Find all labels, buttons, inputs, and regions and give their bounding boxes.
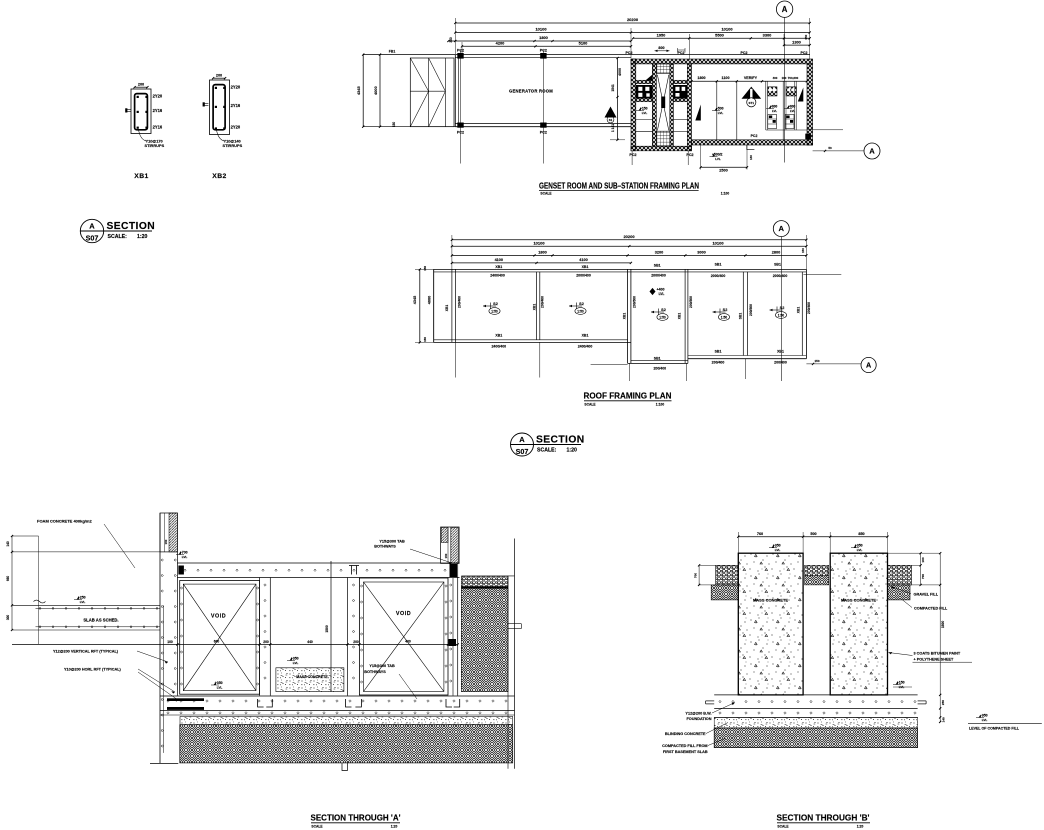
svg-text:PC2: PC2 (751, 134, 758, 138)
svg-text:PC2: PC2 (457, 131, 464, 135)
rft labels (53, 650, 178, 702)
genset plan title (539, 181, 729, 195)
svg-text:SLAB AS SCHED.: SLAB AS SCHED. (83, 617, 118, 622)
svg-text:10100: 10100 (712, 240, 724, 245)
svg-text:4000: 4000 (427, 296, 431, 304)
substation left vertical dims (610, 57, 625, 141)
svg-text:XB1: XB1 (623, 313, 627, 320)
genset plan dimension row 10100 (454, 27, 811, 58)
genset canopy louver panel (410, 58, 454, 127)
substation stair right wall (687, 64, 691, 151)
svg-text:5100: 5100 (579, 41, 588, 46)
svg-text:MASS CONCRETE: MASS CONCRETE (753, 597, 788, 602)
svg-text:760: 760 (757, 532, 763, 536)
svg-text:+250: +250 (78, 595, 86, 599)
roof interior beam labels bottom (491, 334, 786, 371)
svg-text:+350: +350 (291, 656, 299, 660)
section B ground fill (714, 728, 917, 748)
roof section bubble top (780, 237, 782, 381)
mid dim line (12, 639, 459, 645)
svg-text:VERIFY: VERIFY (744, 76, 758, 80)
svg-text:600: 600 (214, 639, 220, 643)
column PC2 grid line a (457, 48, 464, 163)
roof bay3 bottom (591, 361, 688, 365)
slab as sched (36, 607, 161, 628)
svg-text:A: A (782, 5, 788, 14)
svg-text:MASS CONCRETE: MASS CONCRETE (841, 597, 876, 602)
svg-text:STIRRUPS: STIRRUPS (145, 143, 165, 148)
svg-text:1:100: 1:100 (656, 402, 665, 406)
svg-text:A: A (869, 147, 875, 156)
section B top dims 760/500/850 (737, 532, 888, 553)
svg-text:200: 200 (216, 74, 222, 78)
svg-text:SB1: SB1 (654, 263, 661, 267)
svg-text:150: 150 (392, 122, 396, 128)
svg-text:XB1: XB1 (678, 313, 682, 320)
svg-text:2000/400: 2000/400 (576, 274, 591, 278)
roof left dim 4345 (413, 265, 434, 343)
svg-text:VOID: VOID (211, 613, 226, 619)
svg-text:+350: +350 (215, 681, 223, 685)
level marker +150 (893, 680, 912, 689)
genset canopy outline (363, 55, 455, 127)
shaft level marker +350 (290, 658, 292, 661)
blinding band (180, 717, 513, 725)
ground fill band (180, 725, 513, 771)
roof divider 4 (743, 272, 747, 356)
svg-text:LVL: LVL (715, 157, 721, 161)
svg-text:PC2: PC2 (678, 51, 685, 55)
svg-text:150: 150 (814, 359, 819, 363)
svg-text:GRAVEL FILL: GRAVEL FILL (914, 592, 939, 596)
substation right wall (807, 64, 813, 145)
svg-text:200/400: 200/400 (457, 296, 461, 308)
svg-text:LVL: LVL (790, 109, 795, 113)
svg-text:500: 500 (810, 532, 816, 536)
svg-text:10100: 10100 (533, 240, 545, 245)
svg-text:150: 150 (423, 265, 427, 270)
svg-text:+350: +350 (773, 544, 781, 548)
svg-text:3300: 3300 (763, 32, 772, 37)
genset door dim 800 (655, 46, 686, 53)
svg-text:COMPACTED FILL: COMPACTED FILL (914, 606, 948, 610)
svg-text:–950: –950 (980, 713, 988, 717)
section marker A/S07 upper (80, 219, 155, 242)
roof slope marker bay5 (770, 309, 783, 311)
svg-text:LVL: LVL (217, 685, 223, 689)
svg-text:1800: 1800 (539, 35, 548, 40)
roof bays45 bottom (688, 356, 807, 359)
main room PC2 label (751, 134, 811, 140)
svg-text:PC2: PC2 (629, 153, 636, 157)
svg-text:1:20: 1:20 (137, 234, 147, 240)
substation stair inner wall 2 (670, 64, 674, 146)
svg-text:2Y20: 2Y20 (231, 84, 241, 89)
svg-text:BOTHWAYS: BOTHWAYS (374, 544, 396, 548)
roof section bubble right (806, 359, 861, 365)
svg-text:LVL: LVL (80, 600, 86, 604)
wall between void1 and shaft (260, 578, 271, 696)
svg-text:4345: 4345 (356, 86, 361, 95)
svg-text:+ POLYTHENE SHEET: + POLYTHENE SHEET (914, 657, 955, 661)
roof divider 1 (537, 272, 540, 340)
svg-text:140: 140 (749, 155, 753, 160)
svg-text:2Y16: 2Y16 (231, 103, 241, 108)
stair right cell fittings (673, 80, 687, 131)
svg-text:XB1: XB1 (495, 334, 502, 338)
svg-text:FOUNDATION: FOUNDATION (686, 717, 711, 721)
section bubble A top (776, 1, 792, 17)
svg-text:S2: S2 (723, 308, 728, 312)
substation left outside level flag (605, 107, 617, 123)
main room stair-up symbol (742, 87, 762, 107)
svg-text:1800: 1800 (697, 76, 705, 80)
svg-text:150: 150 (164, 539, 168, 544)
svg-text:Y10@200 HORL RFT (TYPICAL): Y10@200 HORL RFT (TYPICAL) (64, 668, 122, 672)
svg-text:Y12@200 B.W.: Y12@200 B.W. (685, 711, 711, 715)
section B foundation slab (706, 695, 927, 709)
svg-text:Y12@200 VERTICAL RFT (TYPICAL): Y12@200 VERTICAL RFT (TYPICAL) (53, 650, 119, 654)
svg-text:LVL: LVL (642, 111, 648, 115)
svg-text:3 COATS BITUMEN PAINT: 3 COATS BITUMEN PAINT (914, 651, 961, 655)
svg-text:440: 440 (307, 640, 313, 644)
svg-text:2000/400: 2000/400 (711, 274, 726, 278)
svg-text:1950: 1950 (657, 32, 666, 37)
section A right stub wall (441, 527, 460, 563)
svg-text:SCALE:: SCALE: (108, 234, 128, 240)
svg-text:200/400: 200/400 (541, 296, 545, 308)
svg-text:XB1: XB1 (134, 173, 148, 180)
roof rotated edge labels (445, 296, 811, 319)
svg-text:4000: 4000 (618, 68, 622, 76)
svg-text:SECTION THROUGH 'A': SECTION THROUGH 'A' (311, 813, 401, 822)
svg-text:250: 250 (941, 700, 945, 705)
svg-text:140: 140 (6, 541, 10, 547)
roof dim row 10100 (451, 240, 808, 247)
svg-text:2500: 2500 (719, 169, 727, 173)
svg-text:GENSET ROOM AND SUB–STATION FR: GENSET ROOM AND SUB–STATION FRAMING PLAN (539, 181, 699, 190)
substation top wall (631, 59, 813, 64)
genset plan dimension row 20200 (454, 17, 811, 60)
below plan dim 2500 (700, 145, 753, 173)
svg-text:ST1: ST1 (749, 101, 755, 105)
compacted fill label (902, 600, 948, 611)
svg-text:PC2: PC2 (626, 51, 633, 55)
roof bay3 left wall (628, 269, 631, 363)
roof slab band (177, 563, 459, 578)
stair door sill (747, 145, 755, 150)
genset canopy dim 4345 (356, 54, 365, 128)
svg-text:1:50: 1:50 (721, 315, 728, 319)
svg-text:1:50: 1:50 (491, 309, 498, 313)
svg-text:200: 200 (138, 83, 144, 87)
mass concrete block 1 (738, 553, 803, 695)
main room partition 1 (716, 81, 718, 140)
svg-text:1:100: 1:100 (721, 191, 730, 195)
mass concrete block 2 (830, 553, 887, 695)
roof slope marker bay3 (651, 311, 664, 313)
svg-text:200/500: 200/500 (749, 304, 753, 316)
svg-text:SB1: SB1 (715, 349, 722, 353)
svg-text:SB1: SB1 (654, 357, 661, 361)
roof wall line left (452, 269, 456, 342)
genset plan dimension row 4200/5100 (461, 41, 632, 56)
svg-text:SCALE: SCALE (584, 402, 596, 406)
svg-text:S2: S2 (780, 306, 785, 310)
left foundation labels (662, 703, 735, 755)
roof slope marker bay4 (713, 311, 726, 313)
void box 1 (180, 581, 260, 695)
svg-text:140: 140 (941, 717, 945, 722)
substation main bottom wall (692, 140, 813, 145)
svg-text:SB1: SB1 (715, 262, 722, 266)
roof left dim 4000 (427, 269, 433, 342)
roof slope marker bay2 (569, 305, 582, 307)
svg-text:1500: 1500 (325, 625, 329, 633)
main room interior dims 1800/1100/VERIFY (690, 76, 808, 83)
column detail XB1 (125, 83, 164, 180)
svg-text:200/400: 200/400 (712, 361, 725, 365)
roof slope marker bay1 (483, 305, 496, 307)
level marker -950 (968, 713, 1042, 730)
svg-text:XB1: XB1 (495, 265, 502, 269)
left wing dim 700 (693, 564, 715, 586)
svg-text:1:20: 1:20 (857, 824, 864, 828)
main room partition right (766, 81, 807, 130)
svg-text:PC2: PC2 (540, 131, 547, 135)
svg-text:300: 300 (449, 37, 453, 43)
gap between blocks fill (805, 565, 829, 585)
genset plan dimension row 300/1800 (447, 35, 632, 42)
svg-text:PC2: PC2 (540, 48, 547, 52)
svg-text:LEVEL OF COMPACTED FILL: LEVEL OF COMPACTED FILL (969, 727, 1020, 731)
shaft vertical dim 1500 (325, 561, 331, 692)
below stair PC2 stubs (629, 151, 693, 165)
svg-text:200/500: 200/500 (689, 296, 693, 308)
svg-text:LVL: LVL (182, 555, 188, 559)
svg-text:1100: 1100 (722, 76, 730, 80)
Y15 tab label top (374, 539, 452, 565)
section A left dims 140/660/300 (6, 535, 160, 631)
svg-text:LVL: LVL (772, 109, 777, 113)
stair upper treads (656, 64, 669, 74)
svg-text:PC2: PC2 (457, 48, 464, 52)
main room partition 2 (736, 81, 738, 140)
main room door wedge left (695, 105, 701, 121)
svg-text:+150: +150 (897, 680, 905, 684)
svg-text:10100: 10100 (721, 27, 733, 32)
main room equipment cell 1 (766, 81, 778, 130)
right gravel wing (888, 565, 912, 600)
svg-text:2Y16: 2Y16 (153, 125, 163, 130)
svg-text:A: A (866, 361, 872, 370)
section bubble A right (813, 146, 864, 152)
svg-text:LVL: LVL (659, 292, 665, 296)
roof dim row 20200 (451, 234, 808, 270)
substation stair bottom wall (631, 146, 692, 151)
svg-text:LVL: LVL (857, 548, 863, 552)
svg-text:1500: 1500 (941, 621, 945, 629)
svg-text:SCALE: SCALE (311, 824, 323, 828)
svg-text:S1: S1 (609, 118, 613, 122)
svg-text:S2: S2 (661, 308, 666, 312)
void1 level marker +350 (214, 682, 216, 685)
svg-text:1800: 1800 (538, 250, 546, 254)
svg-text:4000: 4000 (373, 86, 378, 95)
svg-text:200: 200 (263, 640, 269, 644)
svg-text:100: 100 (921, 557, 925, 562)
svg-text:SB1: SB1 (774, 262, 781, 266)
svg-text:10100: 10100 (535, 27, 547, 32)
block2 level marker +350 (854, 545, 856, 548)
svg-text:A: A (89, 222, 95, 231)
svg-text:LVL: LVL (775, 548, 781, 552)
genset plan dimension row 1950/5500/3300 (632, 32, 811, 60)
main room equipment cell 2 (783, 81, 796, 140)
roof beam labels above (495, 262, 781, 269)
generator room outline (455, 55, 810, 127)
top wall PC labels (626, 51, 808, 55)
svg-text:+600: +600 (788, 104, 795, 108)
roof extension line right (803, 273, 841, 275)
svg-text:150: 150 (444, 553, 448, 558)
svg-text:200: 200 (353, 640, 359, 644)
interior line extension right (807, 129, 843, 131)
svg-text:2Y20: 2Y20 (231, 125, 241, 130)
svg-text:XB1: XB1 (445, 305, 449, 312)
svg-text:1:50: 1:50 (659, 315, 666, 319)
svg-text:FB1: FB1 (389, 50, 396, 54)
svg-text:PC2: PC2 (801, 51, 808, 55)
svg-text:4200: 4200 (496, 41, 505, 46)
svg-text:ROOF FRAMING PLAN: ROOF FRAMING PLAN (584, 391, 672, 400)
svg-text:LVL: LVL (293, 661, 299, 665)
svg-text:3200: 3200 (655, 250, 663, 254)
svg-text:100: 100 (167, 640, 173, 644)
block1 level marker +350 (772, 545, 774, 548)
svg-text:LVL: LVL (982, 718, 988, 722)
svg-text:5500: 5500 (715, 32, 724, 37)
roof plan title (584, 391, 672, 406)
roof dim row 1800/3200/3000/2800 (451, 248, 808, 257)
svg-text:200/500: 200/500 (632, 296, 636, 308)
svg-text:BLINDING CONCRETE: BLINDING CONCRETE (665, 732, 706, 736)
svg-text:SECTION: SECTION (107, 221, 156, 232)
svg-text:4100: 4100 (495, 258, 503, 262)
svg-text:A: A (519, 435, 525, 444)
svg-text:1:50: 1:50 (577, 309, 584, 313)
svg-text:2400/400: 2400/400 (491, 345, 506, 349)
svg-text:Y15@300 TAB: Y15@300 TAB (379, 539, 405, 543)
svg-text:100: 100 (782, 76, 787, 80)
svg-text:2000/400: 2000/400 (773, 274, 788, 278)
svg-text:XB1: XB1 (777, 349, 784, 353)
svg-text:SECTION: SECTION (536, 434, 585, 445)
svg-text:XB1: XB1 (582, 265, 589, 269)
svg-text:700,600: 700,600 (788, 76, 799, 80)
svg-text:3000: 3000 (697, 250, 705, 254)
roof bay3 right wall (685, 269, 688, 363)
svg-text:2400/400: 2400/400 (490, 274, 505, 278)
svg-text:SECTION THROUGH 'B': SECTION THROUGH 'B' (777, 813, 870, 822)
stair scissor flight (657, 75, 668, 131)
svg-text:S07: S07 (86, 234, 99, 243)
svg-text:2800: 2800 (772, 250, 780, 254)
svg-text:S07: S07 (516, 447, 529, 456)
svg-text:SCALE:: SCALE: (537, 448, 557, 454)
void2 right wall (449, 563, 458, 695)
right main dim 1500/250/140 (939, 552, 945, 723)
roof outline (434, 269, 807, 342)
genset plan dimension row 1300 (783, 39, 811, 46)
svg-text:200/400: 200/400 (653, 366, 666, 370)
foam concrete label (37, 519, 135, 569)
svg-text:150: 150 (423, 337, 427, 342)
svg-text:XB1: XB1 (532, 304, 536, 311)
section A left stub wall (160, 513, 177, 552)
svg-text:1541: 1541 (611, 84, 615, 92)
svg-text:SCALE: SCALE (540, 191, 552, 195)
genset canopy dim 4000 (373, 50, 396, 128)
svg-text:20200: 20200 (623, 234, 635, 239)
svg-text:XB1: XB1 (797, 307, 801, 314)
svg-text:2000/400: 2000/400 (651, 274, 666, 278)
stair left cell fittings (636, 75, 653, 132)
below plan level marker +500/2 (712, 154, 714, 157)
svg-text:PC2: PC2 (741, 51, 748, 55)
right wing dims 100/700 (888, 552, 941, 586)
column detail XB2 (203, 74, 243, 180)
svg-text:XB2: XB2 (212, 173, 226, 180)
svg-text:+350: +350 (855, 544, 863, 548)
svg-text:1:20: 1:20 (567, 448, 577, 454)
svg-text:S2: S2 (579, 302, 584, 306)
roof right edge (802, 269, 806, 358)
svg-text:660: 660 (6, 576, 10, 582)
svg-text:1300: 1300 (792, 39, 801, 44)
svg-text:VOID: VOID (396, 611, 411, 617)
svg-text:A: A (779, 224, 785, 233)
substation stair inner wall 1 (652, 64, 656, 146)
shaft mass concrete (276, 668, 344, 692)
roof level marker +400 (650, 287, 665, 296)
section cut line A vertical (784, 17, 786, 162)
section A grid line (34, 536, 46, 645)
svg-text:200/400: 200/400 (774, 361, 787, 365)
svg-text:200: 200 (448, 639, 454, 643)
svg-text:700: 700 (693, 573, 697, 578)
svg-text:2Y20: 2Y20 (153, 93, 163, 98)
main room level marker +500 (715, 108, 717, 111)
svg-text:COMPACTED FILL FROM: COMPACTED FILL FROM (662, 744, 707, 748)
level marker +700 (179, 552, 181, 555)
svg-text:+600: +600 (770, 104, 777, 108)
section B sub slab (714, 712, 917, 718)
svg-text:850: 850 (858, 532, 864, 536)
Y15 tab label mid (364, 664, 417, 699)
column PC2 grid line b (540, 48, 547, 163)
svg-text:400: 400 (405, 639, 411, 643)
svg-text:50: 50 (828, 146, 832, 150)
svg-text:LVL: LVL (718, 111, 724, 115)
gravel fill label (891, 587, 939, 597)
svg-text:XB1: XB1 (582, 334, 589, 338)
svg-text:S2: S2 (493, 302, 498, 306)
svg-text:4100: 4100 (579, 258, 587, 262)
bitumen label (889, 651, 973, 662)
svg-text:FIRST BASEMENT SLAB: FIRST BASEMENT SLAB (663, 750, 708, 754)
svg-text:1 141: 1 141 (611, 124, 615, 132)
